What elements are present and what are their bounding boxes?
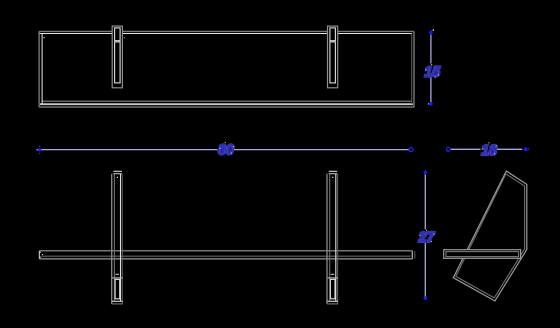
svg-text:15: 15 bbox=[425, 64, 441, 81]
dimension 15 line bbox=[430, 34, 432, 104]
front view left leg slot bbox=[112, 274, 122, 299]
front view plank endpoint dots bbox=[40, 252, 43, 258]
plan view seat plank inner outline bbox=[40, 34, 413, 105]
plan view seat plank outer outline bbox=[39, 31, 414, 107]
text sparkle specks 80 bbox=[219, 142, 234, 154]
dimension 27 line bbox=[424, 173, 426, 297]
front view seat plank edge bbox=[39, 251, 414, 259]
dimension 18 text bbox=[481, 142, 498, 159]
text sparkle specks 27 bbox=[420, 230, 435, 242]
side view leg outer outline bbox=[453, 171, 527, 301]
front view left leg bottom caps bbox=[112, 301, 123, 304]
plan view endpoint dot right bbox=[124, 37, 125, 38]
dimension 27 bottom dot bbox=[423, 296, 427, 300]
front view left leg bbox=[112, 171, 123, 304]
dimension 15 top arrow bbox=[429, 29, 434, 35]
plan view endpoint dot bbox=[44, 37, 45, 38]
dimension 18 line bbox=[450, 148, 522, 150]
dimension 15 text bbox=[424, 63, 441, 80]
side view seat plank cross-section inner bbox=[446, 252, 519, 257]
text sparkle specks 15 bbox=[425, 64, 439, 78]
side view seat plank cross-section outer bbox=[444, 250, 521, 259]
dimension 80 text bbox=[218, 142, 235, 159]
dimension 80 left dot bbox=[37, 146, 42, 155]
dimension 15 bottom dot bbox=[428, 102, 433, 106]
front view right leg bottom caps bbox=[327, 301, 338, 304]
front view right leg bbox=[327, 171, 338, 304]
dimension 80 right circle terminator bbox=[409, 148, 413, 152]
dimension 80 line bbox=[41, 149, 410, 151]
front view right leg endpoint dot bbox=[332, 177, 333, 178]
plan view right leg tab bbox=[330, 28, 336, 83]
svg-text:27: 27 bbox=[418, 230, 435, 247]
plan view right leg slot outer bbox=[328, 26, 338, 88]
text sparkle specks 18 bbox=[482, 142, 497, 154]
dimension 27 top arrow bbox=[423, 170, 427, 175]
svg-text:80: 80 bbox=[218, 142, 234, 159]
plan view left leg tab bbox=[115, 28, 121, 83]
plan view left leg slot outer bbox=[112, 26, 122, 88]
svg-text:18: 18 bbox=[481, 143, 497, 160]
front view right leg slot bbox=[328, 274, 338, 299]
front view left leg endpoint dot bbox=[117, 177, 118, 178]
dimension 18 left circle terminator bbox=[446, 147, 450, 151]
dimension 18 right dot bbox=[524, 147, 530, 151]
dimension 27 text bbox=[418, 229, 435, 246]
side view leg inner outline bbox=[456, 174, 525, 298]
